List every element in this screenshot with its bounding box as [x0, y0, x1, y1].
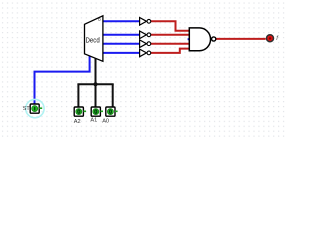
wire: A1 vertical: [95, 84, 97, 107]
decoder U5 body: [85, 16, 103, 62]
wire: A0 vertical: [112, 84, 114, 107]
svg-text:Decd: Decd: [86, 37, 100, 44]
wire: select bus vertical from decoder: [95, 59, 97, 85]
wire: A2 vertical: [77, 84, 79, 107]
svg-text:A0: A0: [102, 118, 109, 124]
wire: NOT U3 output (red, straight): [151, 43, 189, 45]
input pin A1: [90, 107, 103, 124]
input pin ST: [23, 104, 42, 113]
wire: decoder output 1 to NOT U2: [103, 34, 140, 36]
svg-text:A1: A1: [90, 118, 97, 124]
wire: NOT U4 output (red, jog up): [151, 49, 189, 53]
NAND gate U6: [189, 28, 215, 51]
LED D1: [267, 35, 280, 42]
wire: decoder output 0 to NOT U1: [103, 20, 140, 22]
svg-text:A2: A2: [74, 119, 81, 125]
input pin A2: [74, 107, 86, 125]
NOT gate U4: [140, 49, 151, 57]
input pin A0: [102, 107, 117, 124]
svg-text:ST: ST: [23, 106, 31, 112]
wire: decoder output 2 to NOT U3: [103, 43, 140, 45]
floating input stub (blue) on NAND: [188, 38, 190, 40]
junction dot: [94, 82, 98, 86]
wire: decoder output 3 to NOT U4: [103, 52, 140, 54]
NOT gate U3: [140, 40, 151, 48]
selection halo around ST: [26, 99, 44, 117]
NOT gate U1: [140, 18, 151, 26]
NOT gate U2: [140, 31, 151, 39]
wire: NOT U2 output (red, straight): [151, 34, 189, 36]
wire: NAND output to LED: [216, 38, 266, 40]
wire: select bus horizontal: [77, 83, 113, 85]
wire: NOT U1 output (red, jog down): [151, 21, 189, 31]
wire: ST enable (vertical from switch): [35, 56, 90, 104]
